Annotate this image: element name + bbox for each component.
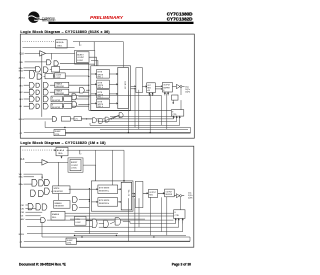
vertical v139-2 — [138, 198, 140, 227]
svg-text:OUTPUT: OUTPUT — [163, 85, 170, 87]
buffer CLK — [40, 51, 46, 56]
E control block 2 — [174, 210, 185, 219]
wire OE — [24, 118, 52, 120]
svg-text:CE2: CE2 — [21, 208, 24, 210]
svg-text:BYTE WRITE: BYTE WRITE — [99, 200, 110, 202]
arrowhead into address register 2 — [54, 149, 56, 151]
svg-text:CTRL: CTRL — [55, 134, 59, 136]
svg-text:OUT: OUT — [147, 85, 150, 87]
node WE2 labels — [19, 174, 23, 186]
vertical v161-2 — [161, 197, 163, 231]
svg-text:CTRL: CTRL — [172, 114, 176, 116]
svg-text:A0,A1,A: A0,A1,A — [57, 149, 65, 152]
arrow up into E2 a — [175, 219, 176, 224]
svg-text:E: E — [52, 98, 53, 100]
bus line d2 y231 — [75, 231, 183, 233]
gate bw2 — [43, 67, 48, 73]
svg-text:Logic Block Diagram – CY7C1380: Logic Block Diagram – CY7C1380D (512K x … — [20, 30, 109, 34]
arrow array2 to sense a — [132, 193, 135, 194]
arrow array to sense b — [131, 88, 136, 89]
wire colL2 out — [78, 96, 88, 98]
gate adv1 — [30, 71, 35, 79]
vertical v135-2 — [134, 198, 136, 231]
svg-text:BWb: BWb — [19, 184, 23, 186]
gate low4 — [119, 113, 123, 118]
svg-text:BWa: BWa — [19, 177, 23, 179]
svg-text:REGISTER b: REGISTER b — [99, 203, 109, 205]
svg-text:REG. d: REG. d — [98, 106, 103, 108]
svg-text:MODE: MODE — [19, 119, 25, 121]
wire row 226 — [27, 226, 95, 228]
oe pipeline box — [61, 117, 70, 121]
arrowhead into address register — [60, 41, 62, 43]
pipeline register row3 b — [64, 96, 72, 101]
arrow sense to O1 — [142, 86, 146, 87]
junction dot d2 a — [116, 235, 117, 236]
write driver bus 2 — [88, 189, 90, 234]
junction dot b1 — [128, 132, 129, 133]
svg-text:BURST: BURST — [77, 54, 84, 56]
wire row3 out — [72, 98, 89, 100]
svg-text:PRELIMINARY: PRELIMINARY — [90, 15, 124, 21]
gate column left 2-1 — [73, 197, 78, 203]
gate before write register — [45, 188, 50, 194]
wire ce2-2 — [25, 208, 36, 210]
svg-text:Logic Block Diagram – CY7C1382: Logic Block Diagram – CY7C1382D (1M x 18… — [20, 141, 105, 145]
arrow up into O2 b — [167, 92, 168, 95]
node A2 address inputs dashed — [23, 149, 55, 151]
wire e path right — [64, 95, 162, 97]
arrow into B2 — [91, 84, 97, 85]
gate low2-2 — [104, 220, 109, 227]
arrow up into O2 a — [164, 92, 165, 95]
gate column left 3 — [72, 101, 77, 107]
svg-text:x36: x36 — [147, 90, 150, 92]
wire a0a1 to counter — [23, 47, 75, 49]
junction dot b2 — [150, 132, 151, 133]
wire low2 c — [110, 222, 115, 224]
gate wr2e — [42, 204, 47, 210]
arrow up into E2 b — [178, 219, 179, 224]
vertical v150-2 — [150, 197, 152, 235]
svg-text:REG. b: REG. b — [98, 87, 103, 89]
gate we2 — [41, 174, 43, 179]
svg-text:BYTE WRITE: BYTE WRITE — [99, 187, 110, 189]
wire CE3 — [24, 98, 30, 100]
frame diagram 1 — [20, 34, 194, 138]
wire CLK2 distribution — [48, 161, 68, 163]
arrow into B3 — [91, 93, 97, 94]
arrow up into E2 c — [182, 219, 183, 224]
arrow sense2 to O1 — [143, 193, 148, 194]
junction dot colL2-1 — [89, 199, 90, 200]
adv load register a — [45, 74, 53, 79]
svg-text:CE1: CE1 — [21, 205, 24, 207]
vertical v128 — [127, 90, 129, 133]
svg-text:REG.: REG. — [52, 217, 57, 219]
gate adv2 — [37, 74, 42, 79]
junction dot bus2b — [89, 201, 90, 202]
sense amps column 2 — [135, 181, 143, 207]
bus line d1 y110 — [89, 109, 172, 111]
vertical v167-2 — [166, 197, 168, 236]
svg-text:REG. c: REG. c — [98, 97, 103, 99]
wire row4 out — [72, 105, 89, 107]
svg-text:REGISTER: REGISTER — [55, 206, 65, 208]
svg-text:E: E — [163, 90, 164, 92]
bus line d2 y237 — [42, 236, 190, 238]
wire clk drop left — [42, 53, 52, 117]
wire zz out — [65, 132, 190, 134]
cypress logo — [28, 12, 56, 23]
output driver pair 2 — [174, 194, 184, 198]
byte write register B2 — [97, 80, 110, 89]
wire zz in — [24, 132, 54, 134]
bus line d1 y129 — [100, 128, 188, 130]
svg-text:1M x 18: 1M x 18 — [127, 190, 129, 196]
wire bw link — [50, 69, 52, 71]
wire a2 drop — [79, 150, 81, 154]
byte write register B4 — [97, 99, 110, 108]
output register O1 — [147, 83, 156, 93]
svg-text:LOGIC: LOGIC — [76, 222, 82, 224]
svg-text:REG. a: REG. a — [98, 77, 103, 79]
gate row4 a — [29, 103, 34, 109]
svg-text:REGISTER: REGISTER — [52, 107, 61, 109]
node A address inputs dashed — [23, 41, 60, 43]
header rule — [49, 22, 194, 24]
arrow into B1 — [91, 73, 97, 74]
vertical v135 — [134, 90, 136, 128]
gate we2b — [45, 179, 50, 185]
wire buffer enable 2 — [180, 197, 182, 210]
junction dot d2 c — [153, 236, 154, 237]
burst counter block — [75, 50, 95, 64]
arrow B3 to array — [109, 93, 117, 94]
wire low c — [111, 115, 119, 119]
svg-text:BUFFER: BUFFER — [163, 87, 170, 89]
gate row1 c — [43, 82, 48, 88]
wire colL1 out — [86, 89, 89, 91]
arrow array2 to sense b — [132, 196, 135, 197]
svg-text:REG.: REG. — [58, 45, 63, 47]
wire address to array — [73, 42, 123, 69]
gate wr2d — [36, 204, 41, 210]
vertical v128-2 — [127, 198, 129, 241]
wire low a — [81, 118, 92, 120]
enable register row2 — [55, 89, 69, 95]
address register U2 — [56, 147, 68, 155]
bus line d1 y121 — [98, 120, 177, 122]
wire colL3 out — [78, 103, 88, 105]
svg-text:CTRL: CTRL — [175, 215, 179, 217]
wire gate drop 2 — [41, 223, 43, 237]
bus line d2 y235 — [75, 234, 187, 236]
svg-text:ENABLE: ENABLE — [52, 213, 60, 216]
junction dot colL2 — [88, 96, 89, 97]
node DQ labels — [185, 86, 190, 93]
burst counter block 2 — [68, 158, 83, 172]
svg-text:CLK: CLK — [20, 159, 25, 161]
pipeline register row3 — [51, 96, 62, 102]
wire zz2 out — [76, 240, 190, 242]
gate row1 b — [36, 83, 40, 87]
junction dot zz — [64, 127, 65, 128]
wire row4 link — [62, 105, 63, 107]
gate bw2b — [39, 180, 44, 186]
byte write register 2B2 — [98, 198, 118, 207]
bus line d2 y219 — [70, 218, 145, 220]
wire colL2-2 out — [79, 207, 90, 209]
gate bw2a — [32, 179, 37, 186]
wire counter out — [89, 57, 96, 66]
wire address2 to array — [67, 150, 125, 181]
arrow 2B1 to array — [118, 189, 122, 190]
gate write1 — [47, 60, 52, 65]
wire bwb2 — [24, 183, 33, 185]
wire low b — [104, 115, 119, 121]
junction dot oe — [86, 118, 87, 119]
svg-text:DQs: DQs — [185, 86, 189, 88]
byte write register 2B1 — [98, 185, 118, 194]
bus line d1 y116 — [110, 115, 174, 117]
wire wreg2 out — [69, 188, 92, 190]
wire WE — [25, 61, 47, 63]
wire row1 link — [50, 84, 55, 86]
wire a0a1 into counter 2 — [61, 156, 62, 159]
wire oe out — [70, 118, 173, 120]
wire e2 drop b — [182, 224, 184, 232]
wire CLK — [25, 52, 40, 54]
svg-text:DQs: DQs — [188, 192, 192, 194]
vertical v139 — [138, 90, 140, 130]
node CE2 labels — [21, 205, 25, 221]
svg-text:REGISTER: REGISTER — [54, 191, 64, 193]
vertical v167 — [166, 93, 168, 129]
enable register block 2 — [54, 201, 70, 209]
wire row2 link — [50, 91, 55, 93]
wire adv link a — [44, 76, 45, 78]
wire row3 link — [62, 98, 63, 100]
svg-text:REGISTER: REGISTER — [56, 86, 65, 88]
svg-text:CY7C1382D: CY7C1382D — [167, 16, 193, 21]
byte write register B1 — [97, 70, 110, 79]
gate row4 b — [36, 104, 40, 108]
svg-text:WRITE: WRITE — [98, 104, 104, 106]
svg-text:LOGIC: LOGIC — [71, 168, 78, 170]
svg-text:REGISTER: REGISTER — [56, 93, 65, 95]
wire we out — [60, 62, 89, 64]
adv load register b — [55, 73, 66, 79]
wire adv2 — [25, 218, 40, 220]
arrow array to sense a — [131, 86, 136, 87]
wire o2 to pads — [172, 86, 176, 88]
arrow up into E c — [179, 116, 180, 120]
svg-text:MODE: MODE — [19, 234, 25, 236]
svg-text:REGISTER a: REGISTER a — [99, 190, 109, 192]
arrow B2 to array — [109, 84, 117, 85]
vertical v150 — [149, 94, 151, 134]
wire e2 drop a — [178, 224, 180, 228]
arrow into 2B2 — [92, 201, 98, 202]
svg-text:CE3: CE3 — [21, 212, 24, 214]
svg-text:Document #: 38-05234 Rev. *E: Document #: 38-05234 Rev. *E — [19, 262, 67, 266]
svg-text:BWd: BWd — [19, 70, 23, 72]
svg-text:512K x 36: 512K x 36 — [124, 81, 126, 89]
wire row1 out — [69, 84, 89, 86]
svg-text:DQPa: DQPa — [188, 195, 192, 197]
wire adv link b — [53, 75, 54, 77]
wire low2 a — [86, 220, 92, 222]
gate low2-1 — [92, 219, 97, 228]
wire CE2 — [24, 91, 30, 93]
arrow up into E b — [176, 116, 177, 120]
wire row2 out — [69, 91, 89, 93]
svg-text:ADV/LD: ADV/LD — [19, 76, 26, 79]
byte write hold register — [52, 67, 60, 72]
junction dot d2 b — [74, 235, 75, 236]
wire data drop 2 — [112, 150, 114, 185]
svg-text:REGISTER: REGISTER — [52, 100, 61, 102]
gate row2 b — [36, 90, 40, 94]
svg-text:OUTPUT: OUTPUT — [166, 191, 173, 193]
svg-text:DQPb: DQPb — [188, 197, 192, 199]
wire ce2-1 — [25, 204, 28, 206]
wire bw a — [24, 67, 36, 69]
wire CLK2 — [25, 161, 42, 163]
svg-text:CE1: CE1 — [19, 85, 23, 87]
svg-text:REG.: REG. — [58, 153, 63, 155]
arrow B4 to array — [109, 103, 117, 104]
gate column left 2 — [72, 94, 77, 100]
svg-text:2: 2 — [80, 153, 81, 155]
svg-text:CTRL: CTRL — [67, 242, 71, 244]
E control block — [171, 110, 184, 116]
ram array 512Kx36 — [118, 67, 129, 108]
control logic box lower — [74, 117, 81, 121]
gate oe2 — [41, 218, 46, 223]
wire clk drop counter — [81, 50, 83, 53]
gate row1 a — [29, 82, 34, 88]
wire zz2 in — [24, 240, 66, 242]
gate low2 — [99, 118, 103, 123]
junction dot colL3 — [88, 104, 89, 105]
junction dot bus1 — [88, 69, 89, 70]
wire clk2 feedback — [95, 150, 97, 181]
wire clk drop regs — [93, 42, 95, 66]
wire ce2-3 — [25, 211, 42, 213]
svg-text:OUTPUT: OUTPUT — [149, 192, 156, 194]
wire right edge join — [190, 127, 192, 132]
gate row3 a — [29, 96, 34, 102]
svg-text:CTL: CTL — [75, 119, 78, 121]
wire we2 — [24, 173, 43, 175]
gate wr2c — [28, 203, 33, 210]
wire counter2 out — [83, 165, 96, 181]
wire oe2 — [25, 215, 40, 217]
svg-text:COUNT: COUNT — [56, 74, 62, 76]
gate bw1 — [36, 66, 41, 72]
control logic box lower 2 — [75, 216, 87, 225]
arrow o1 to o2 — [155, 86, 162, 90]
bus line d1 y125 — [90, 120, 180, 126]
enable register row1 — [55, 82, 69, 88]
ram array 1Mx18 — [121, 182, 132, 210]
gate row2 a — [29, 89, 34, 95]
svg-text:CE3: CE3 — [19, 99, 23, 101]
wire CE1 — [24, 84, 30, 86]
wire OE — [24, 105, 30, 107]
junction dot we2 — [42, 177, 43, 178]
arrow into array2 top — [123, 180, 125, 182]
node DQ2 labels — [188, 192, 192, 199]
wire CLK distribution — [46, 52, 95, 54]
svg-text:WRITE: WRITE — [98, 85, 104, 87]
svg-text:CYPRESS: CYPRESS — [42, 16, 55, 20]
arrow 2B2 to array — [118, 201, 122, 202]
gate row4 c — [43, 103, 48, 109]
memory block enclosure — [91, 66, 131, 111]
vertical v161 — [161, 96, 163, 126]
e register block 2 — [51, 211, 65, 220]
gate oe — [52, 117, 56, 122]
write driver bus — [88, 63, 90, 110]
wire A0A1 drop — [79, 42, 81, 46]
wire bwa2 — [24, 176, 35, 178]
wire enable feed — [92, 94, 94, 96]
wire bw d — [24, 70, 36, 72]
gate low3 — [105, 117, 109, 122]
svg-text:WRITE: WRITE — [54, 188, 61, 190]
arrow up into O1 a — [149, 93, 150, 96]
output mux O2 — [162, 83, 172, 93]
wire clk2 drop left — [58, 162, 60, 200]
wire low2 b — [99, 222, 104, 224]
svg-text:BUFFER: BUFFER — [166, 194, 173, 196]
bus line d2 y212 — [65, 212, 174, 214]
wire counter out b — [91, 61, 98, 66]
svg-text:LOGIC: LOGIC — [77, 60, 84, 62]
wire row 233 — [27, 233, 118, 235]
svg-text:REG.: REG. — [149, 194, 153, 196]
arrow into B4 — [91, 103, 97, 104]
node BW labels — [19, 68, 23, 73]
gate column left 2-2 — [73, 205, 78, 211]
svg-text:COUNT: COUNT — [77, 57, 85, 59]
sleep control box 2 — [66, 238, 76, 244]
gate wr2a — [31, 190, 36, 196]
svg-text:A0,A1,A: A0,A1,A — [56, 41, 64, 44]
wire gate drop — [44, 121, 46, 127]
output driver pair — [176, 84, 184, 88]
address register U1 — [56, 40, 68, 48]
arrow into array top — [122, 68, 124, 70]
gate row2 c — [43, 89, 48, 95]
bus line d2 y223 — [123, 221, 176, 223]
bus line d2 y227 — [99, 226, 179, 228]
bus line d2 y215 — [65, 215, 174, 217]
svg-text:DQPd: DQPd — [185, 92, 190, 94]
mode box small — [172, 95, 178, 104]
byte write register B3 — [97, 90, 110, 99]
wire adv out — [65, 75, 89, 77]
gate wr2b — [39, 190, 44, 196]
wire gate to wreg — [51, 190, 52, 192]
gate low1 — [92, 118, 96, 123]
bus line d1 y127 — [45, 127, 190, 129]
gate write2 — [54, 61, 58, 66]
svg-text:CLK: CLK — [20, 54, 25, 56]
